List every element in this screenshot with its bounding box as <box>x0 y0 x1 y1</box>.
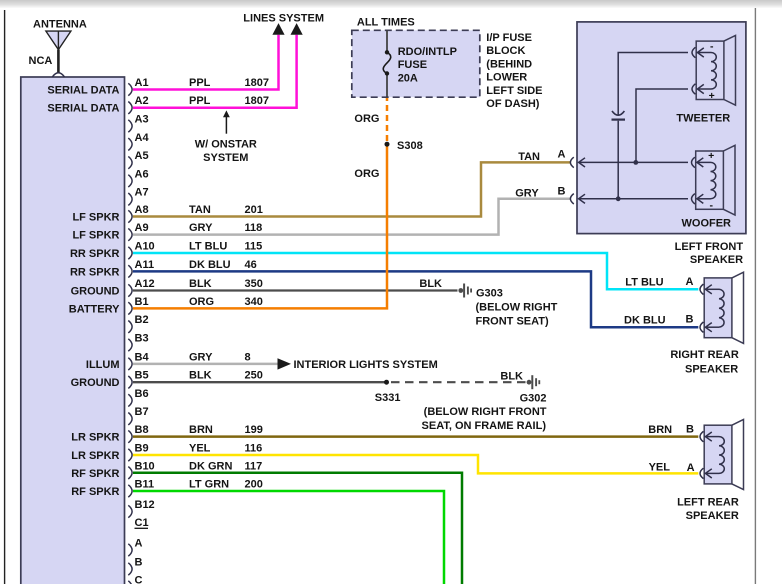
svg-text:BLK: BLK <box>500 370 523 382</box>
radio unit connector box <box>21 77 125 584</box>
svg-text:+: + <box>708 150 714 162</box>
svg-text:A11: A11 <box>135 259 155 271</box>
svg-text:B8: B8 <box>135 424 149 436</box>
pin B9 <box>128 443 148 462</box>
svg-text:117: 117 <box>245 460 263 472</box>
pin A6 <box>128 168 148 187</box>
pin B6 <box>128 388 148 407</box>
svg-text:B9: B9 <box>135 443 149 455</box>
svg-text:B: B <box>558 186 566 198</box>
svg-text:B4: B4 <box>135 351 150 363</box>
svg-text:LOWER: LOWER <box>486 72 527 84</box>
svg-text:GRY: GRY <box>189 351 213 363</box>
label ORG upper <box>354 113 379 125</box>
pin A3 <box>128 114 148 133</box>
wire B9 YEL 116 to left rear speaker pin A <box>133 455 698 473</box>
svg-text:A: A <box>687 462 695 474</box>
pin A5 <box>128 150 148 169</box>
wire B8 BRN 199 to left rear speaker pin B <box>133 435 698 438</box>
svg-text:-: - <box>710 40 714 52</box>
wire A2 PPL 1807 to data lines system <box>133 23 303 108</box>
svg-text:SPEAKER: SPEAKER <box>690 254 743 266</box>
label W/ ONSTAR SYSTEM with arrow <box>195 110 257 164</box>
wire pin A to woofer plus <box>579 160 688 165</box>
svg-text:A6: A6 <box>135 168 149 180</box>
svg-text:A10: A10 <box>135 241 155 253</box>
wire color/circuit number labels <box>189 77 269 491</box>
svg-text:C1: C1 <box>135 517 149 529</box>
splice S331 <box>375 380 401 404</box>
wire pin B to woofer minus <box>579 196 688 201</box>
wire B10 DK GRN 117 <box>133 473 462 584</box>
pin A4 <box>128 132 149 151</box>
svg-text:A5: A5 <box>135 150 149 162</box>
svg-text:B7: B7 <box>135 406 149 418</box>
label TWEETER <box>676 113 730 125</box>
fuse block box I/P FUSE BLOCK <box>352 17 480 98</box>
svg-text:GROUND: GROUND <box>71 286 120 298</box>
svg-text:BATTERY: BATTERY <box>69 303 120 315</box>
ground G303 <box>458 284 557 328</box>
svg-text:B10: B10 <box>135 460 155 472</box>
svg-text:B: B <box>135 557 143 569</box>
svg-text:GRY: GRY <box>189 222 213 234</box>
wire A11 DK BLU 46 to right rear speaker pin B <box>133 271 698 327</box>
svg-text:BLK: BLK <box>189 370 212 382</box>
svg-text:RF SPKR: RF SPKR <box>71 486 119 498</box>
svg-text:LINES SYSTEM: LINES SYSTEM <box>243 13 324 25</box>
svg-text:118: 118 <box>245 222 263 234</box>
wire B4 GRY 8 to interior lights system <box>133 358 438 371</box>
svg-text:G303: G303 <box>476 288 503 300</box>
svg-text:LEFT REAR: LEFT REAR <box>677 497 739 509</box>
svg-text:B12: B12 <box>135 499 155 511</box>
pin B8 <box>128 424 148 443</box>
svg-text:PPL: PPL <box>189 77 211 89</box>
svg-text:200: 200 <box>245 479 263 491</box>
pin B <box>128 557 142 576</box>
svg-text:(BEHIND: (BEHIND <box>486 58 532 70</box>
speaker right rear <box>700 272 744 343</box>
svg-text:GROUND: GROUND <box>71 377 120 389</box>
svg-text:OF DASH): OF DASH) <box>486 98 540 110</box>
svg-text:SEAT, ON FRAME RAIL): SEAT, ON FRAME RAIL) <box>422 420 547 432</box>
left front speaker box <box>577 22 746 234</box>
svg-text:TWEETER: TWEETER <box>676 113 730 125</box>
wire A1 PPL 1807 to data lines system <box>133 23 285 89</box>
pin A9 <box>128 222 148 241</box>
svg-text:I/P FUSE: I/P FUSE <box>486 32 532 44</box>
svg-text:SERIAL DATA: SERIAL DATA <box>47 103 119 115</box>
svg-text:B: B <box>686 424 694 436</box>
pin B12 <box>128 499 154 518</box>
wire B11 LT GRN 200 <box>133 491 444 584</box>
svg-text:20A: 20A <box>398 72 418 84</box>
pin B11 <box>128 479 154 498</box>
svg-text:LEFT FRONT: LEFT FRONT <box>675 241 744 253</box>
svg-text:LF SPKR: LF SPKR <box>72 212 119 224</box>
pin A7 <box>128 187 148 206</box>
svg-text:A4: A4 <box>135 132 150 144</box>
svg-text:B11: B11 <box>135 479 155 491</box>
pin A <box>128 538 142 557</box>
svg-text:B2: B2 <box>135 314 149 326</box>
antenna <box>29 19 87 73</box>
wire tweeter minus branch <box>618 53 688 116</box>
label I/P FUSE BLOCK location <box>486 32 542 110</box>
pin A10 <box>128 241 154 260</box>
svg-text:A12: A12 <box>135 278 155 290</box>
svg-text:ORG: ORG <box>354 113 379 125</box>
svg-text:LT BLU: LT BLU <box>189 241 227 253</box>
pin A1 <box>128 77 148 96</box>
label LEFT REAR SPEAKER <box>677 497 739 523</box>
label LT BLU at right rear speaker <box>625 276 693 289</box>
pin B2 <box>128 314 148 333</box>
svg-text:ORG: ORG <box>189 296 214 308</box>
svg-text:ORG: ORG <box>354 168 379 180</box>
svg-text:PPL: PPL <box>189 95 211 107</box>
pin C <box>128 575 142 584</box>
svg-text:ILLUM: ILLUM <box>86 359 120 371</box>
svg-text:W/ ONSTAR: W/ ONSTAR <box>195 139 257 151</box>
connector C1 label <box>135 517 149 529</box>
svg-text:DK BLU: DK BLU <box>189 259 231 271</box>
svg-text:115: 115 <box>245 241 263 253</box>
label YEL at left rear speaker <box>649 462 695 475</box>
wire tweeter plus branch <box>636 89 688 162</box>
svg-text:201: 201 <box>245 204 263 216</box>
svg-text:LF SPKR: LF SPKR <box>72 230 119 242</box>
svg-text:NCA: NCA <box>29 55 53 67</box>
svg-text:A: A <box>135 538 143 550</box>
label WOOFER <box>682 218 732 230</box>
svg-text:YEL: YEL <box>649 462 671 474</box>
label GRY at speaker <box>515 187 539 199</box>
svg-text:S331: S331 <box>375 392 401 404</box>
svg-text:RIGHT REAR: RIGHT REAR <box>670 349 739 361</box>
pin B4 <box>128 351 149 370</box>
wire A10 LT BLU 115 to right rear speaker pin A <box>133 253 698 289</box>
svg-text:340: 340 <box>245 296 263 308</box>
svg-text:LT GRN: LT GRN <box>189 479 229 491</box>
svg-text:+: + <box>709 90 715 102</box>
speaker tweeter <box>692 35 736 105</box>
svg-text:LR SPKR: LR SPKR <box>71 432 119 444</box>
svg-text:B6: B6 <box>135 388 149 400</box>
svg-text:GRY: GRY <box>515 187 539 199</box>
svg-text:RF SPKR: RF SPKR <box>71 468 119 480</box>
wire A8 TAN 201 to left front speaker pin A <box>133 162 570 216</box>
svg-text:SERIAL DATA: SERIAL DATA <box>47 85 119 97</box>
svg-text:FUSE: FUSE <box>398 59 427 71</box>
wire B1 ORG 340 from fuse <box>133 97 387 308</box>
svg-text:BLK: BLK <box>419 278 442 290</box>
svg-text:ANTENNA: ANTENNA <box>33 19 87 31</box>
svg-text:C: C <box>135 575 143 584</box>
svg-text:A3: A3 <box>135 114 149 126</box>
svg-text:1807: 1807 <box>245 77 269 89</box>
svg-text:RDO/INTLP: RDO/INTLP <box>398 46 457 58</box>
svg-text:B3: B3 <box>135 333 149 345</box>
pin A8 <box>128 204 148 223</box>
svg-text:A7: A7 <box>135 187 149 199</box>
svg-text:(BELOW RIGHT FRONT: (BELOW RIGHT FRONT <box>424 406 547 418</box>
svg-text:46: 46 <box>245 259 257 271</box>
pin B1 <box>128 296 148 315</box>
svg-text:YEL: YEL <box>189 443 211 455</box>
label TAN at speaker <box>518 151 540 163</box>
label RIGHT REAR SPEAKER <box>670 349 739 375</box>
label LEFT FRONT SPEAKER <box>675 241 744 266</box>
svg-text:A1: A1 <box>135 77 149 89</box>
wire A12 BLK 350 to ground G303 <box>133 278 458 291</box>
label DK BLU at right rear speaker <box>624 313 693 326</box>
svg-text:350: 350 <box>245 278 263 290</box>
pin B10 <box>128 460 154 479</box>
pin A of left front speaker <box>558 149 585 168</box>
svg-text:SPEAKER: SPEAKER <box>685 363 738 375</box>
svg-text:SYSTEM: SYSTEM <box>203 152 248 164</box>
label DATA LINES SYSTEM <box>243 13 324 25</box>
wire A9 GRY 118 to left front speaker pin B <box>133 199 570 235</box>
svg-text:BRN: BRN <box>189 424 213 436</box>
svg-text:B1: B1 <box>135 296 149 308</box>
fuse RDO/INTLP FUSE 20A <box>383 30 457 97</box>
svg-text:INTERIOR LIGHTS SYSTEM: INTERIOR LIGHTS SYSTEM <box>294 359 438 371</box>
wire B5 BLK 250 to splice S331 and ground G302 <box>133 370 526 382</box>
svg-text:A: A <box>558 149 566 161</box>
pin A11 <box>128 259 154 278</box>
svg-text:-: - <box>709 200 713 212</box>
ground G302 <box>422 375 547 432</box>
pin B7 <box>128 406 148 425</box>
connector pin function labels <box>47 85 120 499</box>
label BRN at left rear speaker <box>648 424 694 436</box>
pin B5 <box>128 370 148 389</box>
svg-text:A2: A2 <box>135 95 149 107</box>
speaker woofer <box>692 145 736 215</box>
svg-text:WOOFER: WOOFER <box>682 218 732 230</box>
svg-text:RR SPKR: RR SPKR <box>70 266 120 278</box>
svg-text:199: 199 <box>245 424 263 436</box>
svg-text:A: A <box>685 276 693 288</box>
pin B3 <box>128 333 148 352</box>
svg-text:BLOCK: BLOCK <box>486 45 525 57</box>
svg-text:A9: A9 <box>135 222 149 234</box>
svg-text:B5: B5 <box>135 370 149 382</box>
svg-text:LEFT SIDE: LEFT SIDE <box>486 85 542 97</box>
svg-text:G302: G302 <box>520 393 547 405</box>
svg-text:FRONT SEAT): FRONT SEAT) <box>476 316 549 328</box>
svg-text:A8: A8 <box>135 204 149 216</box>
pin A12 <box>128 278 154 297</box>
svg-text:116: 116 <box>245 443 263 455</box>
svg-text:(BELOW RIGHT: (BELOW RIGHT <box>476 302 558 314</box>
svg-text:TAN: TAN <box>189 204 211 216</box>
svg-text:BRN: BRN <box>648 424 672 436</box>
svg-text:SPEAKER: SPEAKER <box>686 510 739 522</box>
svg-text:BLK: BLK <box>189 278 212 290</box>
svg-text:LT BLU: LT BLU <box>625 277 663 289</box>
capacitor in series with tweeter <box>612 111 626 199</box>
svg-text:RR SPKR: RR SPKR <box>70 248 120 260</box>
antenna pin arc on connector <box>52 73 64 77</box>
svg-text:TAN: TAN <box>518 151 540 163</box>
splice S308 <box>385 140 423 152</box>
speaker left rear <box>700 420 744 490</box>
svg-text:DK BLU: DK BLU <box>624 314 666 326</box>
svg-text:DK GRN: DK GRN <box>189 460 232 472</box>
svg-text:8: 8 <box>245 351 251 363</box>
pin B of left front speaker <box>558 186 585 205</box>
svg-text:LR SPKR: LR SPKR <box>71 450 119 462</box>
pin A2 <box>128 95 148 114</box>
svg-text:1807: 1807 <box>245 95 269 107</box>
svg-text:B: B <box>685 313 693 325</box>
svg-text:250: 250 <box>245 370 263 382</box>
svg-text:S308: S308 <box>397 140 423 152</box>
label ORG lower <box>354 168 379 180</box>
svg-text:ALL TIMES: ALL TIMES <box>357 17 415 29</box>
